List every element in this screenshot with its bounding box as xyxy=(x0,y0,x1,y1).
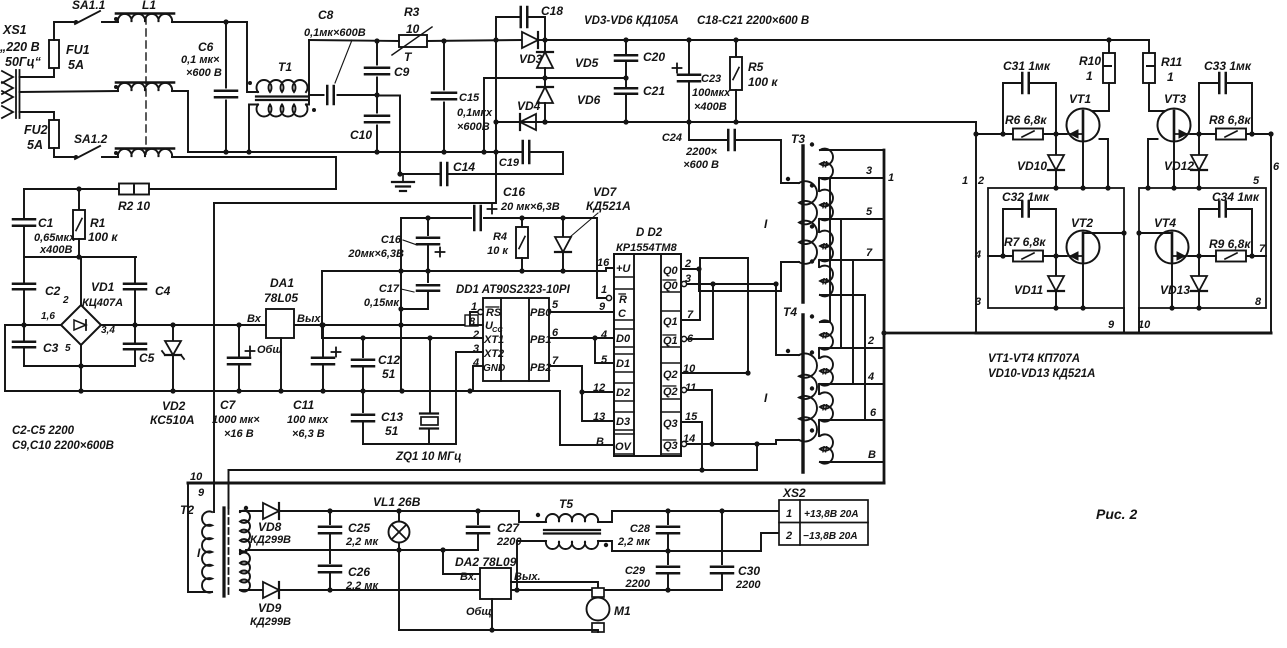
svg-text:9: 9 xyxy=(198,487,205,499)
svg-text:Рис. 2: Рис. 2 xyxy=(1096,506,1137,522)
lamp VL1 xyxy=(398,511,400,522)
wire xyxy=(1198,292,1200,308)
transistor VT2 xyxy=(1067,231,1100,264)
wire xyxy=(80,345,82,391)
svg-text:8: 8 xyxy=(1255,296,1262,308)
wire (PB1 to D0/D1) xyxy=(549,337,614,339)
capacitor C16 (shunt) xyxy=(427,218,429,235)
wire xyxy=(544,68,546,78)
wire xyxy=(78,189,80,210)
wire xyxy=(238,325,240,358)
wire xyxy=(448,173,564,175)
resistor R9 xyxy=(1216,251,1246,262)
svg-text:PB0: PB0 xyxy=(530,307,552,319)
wire xyxy=(496,121,520,123)
svg-text:C12: C12 xyxy=(378,353,400,367)
wire (return) xyxy=(597,630,599,632)
svg-text:0,1 мк×: 0,1 мк× xyxy=(181,54,220,66)
wire (shield tap) xyxy=(228,470,230,508)
svg-text:51: 51 xyxy=(382,367,396,381)
svg-text:16: 16 xyxy=(597,257,610,269)
svg-text:10: 10 xyxy=(190,471,203,483)
wire xyxy=(188,151,496,153)
wire xyxy=(598,541,612,551)
svg-text:10 к: 10 к xyxy=(487,245,509,257)
svg-text:PB1: PB1 xyxy=(530,334,551,346)
wire (PB2 to D2/D3) xyxy=(549,366,614,421)
wire (bridge left column) xyxy=(214,40,496,203)
wire xyxy=(102,21,118,23)
wire (net 9, heavy) xyxy=(188,482,884,485)
svg-text:FU1: FU1 xyxy=(66,43,90,57)
svg-text:0,1мкх: 0,1мкх xyxy=(457,107,493,119)
wire xyxy=(562,218,564,237)
wire xyxy=(1149,83,1174,111)
inner frame (VT2 cell) xyxy=(988,188,1124,308)
svg-text:C21: C21 xyxy=(643,84,665,98)
svg-text:Общ: Общ xyxy=(466,606,492,618)
svg-text:R6 6,8к: R6 6,8к xyxy=(1005,113,1047,127)
capacitor C5 xyxy=(134,325,136,343)
inverted output marker xyxy=(681,387,686,392)
svg-text:R3: R3 xyxy=(404,5,420,19)
svg-text:0,15мк: 0,15мк xyxy=(364,297,401,309)
svg-text:VL1 26В: VL1 26В xyxy=(373,495,421,509)
svg-text:C3: C3 xyxy=(43,341,59,355)
svg-text:SA1.2: SA1.2 xyxy=(74,132,108,146)
wire xyxy=(338,94,378,96)
svg-text:2: 2 xyxy=(867,335,874,347)
svg-text:5: 5 xyxy=(552,299,559,311)
svg-text:78L05: 78L05 xyxy=(264,291,298,305)
capacitor C29 xyxy=(667,551,669,564)
svg-text:С23: С23 xyxy=(701,73,721,85)
svg-text:C14: C14 xyxy=(453,160,475,174)
svg-text:C5: C5 xyxy=(139,351,155,365)
svg-text:C16: C16 xyxy=(503,185,525,199)
wire xyxy=(712,284,714,339)
svg-text:9: 9 xyxy=(1108,319,1115,331)
wire xyxy=(322,365,324,392)
wire xyxy=(24,324,61,326)
svg-text:2200×: 2200× xyxy=(685,146,717,158)
wire xyxy=(306,40,309,105)
capacitor C8 xyxy=(326,86,329,104)
wire (XT1 pin) xyxy=(322,337,483,339)
svg-text:КД299В: КД299В xyxy=(250,534,291,546)
svg-text:XS2: XS2 xyxy=(782,486,806,500)
svg-text:2200: 2200 xyxy=(625,578,651,590)
wire xyxy=(536,121,545,123)
wire (Q2) xyxy=(681,372,748,374)
wire xyxy=(530,152,564,174)
svg-text:C15: C15 xyxy=(459,92,480,104)
svg-text:SA1.1: SA1.1 xyxy=(72,0,106,12)
bus (transformer secondary common) xyxy=(883,150,886,481)
svg-text:2: 2 xyxy=(472,329,479,341)
wire (tap 3) xyxy=(820,177,884,179)
svg-text:R10: R10 xyxy=(1079,54,1101,68)
svg-text:С32 1мк: С32 1мк xyxy=(1002,190,1050,204)
svg-text:CC: CC xyxy=(492,325,503,334)
svg-text:C8: C8 xyxy=(318,8,334,22)
block frame (outer right) xyxy=(1270,134,1272,333)
svg-text:2: 2 xyxy=(977,175,984,187)
svg-text:9: 9 xyxy=(599,301,606,313)
wire xyxy=(363,352,456,444)
capacitor C28 xyxy=(667,511,669,524)
wire xyxy=(443,103,445,153)
wire xyxy=(688,40,690,75)
wire xyxy=(1123,308,1125,333)
svg-text:3: 3 xyxy=(473,343,479,355)
transformer T3 secondary II winding xyxy=(820,190,833,221)
wire (Q2bar) xyxy=(687,390,712,444)
wire xyxy=(756,444,758,470)
rail (+13.8 output) xyxy=(612,510,779,512)
transformer T3 secondary II winding xyxy=(820,231,833,262)
svg-text:Вх.: Вх. xyxy=(460,571,477,583)
wire (bridge AC return) xyxy=(24,365,81,367)
wire xyxy=(188,483,212,592)
svg-text:С31 1мк: С31 1мк xyxy=(1003,59,1051,73)
wire (Q0bar) xyxy=(687,283,776,285)
wire (winding link) xyxy=(818,219,820,232)
wire (net 10) xyxy=(229,469,758,471)
fuse FU1 xyxy=(49,40,59,68)
svg-text:VT2: VT2 xyxy=(1071,216,1093,230)
svg-text:D0: D0 xyxy=(616,333,631,345)
svg-text:C2: C2 xyxy=(45,284,61,298)
svg-text:5: 5 xyxy=(65,343,71,354)
wire (bus to VT block) xyxy=(884,332,976,335)
svg-text:С7: С7 xyxy=(220,398,237,412)
svg-text:6: 6 xyxy=(870,407,877,419)
wire (gate rail VT4) xyxy=(1189,255,1266,257)
inner frame (VT4 cell) xyxy=(1139,188,1266,308)
wire (PB0 to DD2 C) xyxy=(549,311,614,313)
switch SA1.1 xyxy=(75,11,100,24)
svg-text:13: 13 xyxy=(593,411,605,423)
wire xyxy=(1100,139,1109,188)
wire (tap B) xyxy=(820,461,884,463)
svg-text:OV: OV xyxy=(615,441,633,453)
wire xyxy=(376,41,378,65)
svg-text:С34 1мк: С34 1мк xyxy=(1212,190,1260,204)
motor M1 xyxy=(592,588,604,597)
svg-text:II: II xyxy=(822,277,828,288)
svg-text:51: 51 xyxy=(385,424,399,438)
transformer T2 secondary xyxy=(240,511,250,552)
svg-text:XT2: XT2 xyxy=(483,348,504,360)
svg-text:VT1-VT4 КП707А: VT1-VT4 КП707А xyxy=(988,353,1080,365)
svg-text:0,65мкх: 0,65мкх xyxy=(34,232,76,244)
svg-text:C6: C6 xyxy=(198,40,214,54)
svg-text:С2-С5 2200: С2-С5 2200 xyxy=(12,425,75,437)
rail (-26V) xyxy=(279,589,722,591)
wire xyxy=(172,357,174,391)
svg-text:Общ: Общ xyxy=(257,344,283,356)
wire (VT3 source) xyxy=(1173,139,1175,188)
svg-text:C26: C26 xyxy=(348,565,370,579)
svg-text:C17: C17 xyxy=(379,283,400,295)
svg-text:C9: C9 xyxy=(394,65,410,79)
IC DD2 КР1554ТМ8 xyxy=(614,254,681,456)
svg-text:R7 6,8к: R7 6,8к xyxy=(1004,235,1046,249)
svg-text:В: В xyxy=(596,436,604,448)
capacitor C26 xyxy=(329,550,331,563)
svg-text:VT3: VT3 xyxy=(1164,92,1186,106)
diode VD9 xyxy=(263,582,279,598)
svg-text:VD13: VD13 xyxy=(1160,283,1190,297)
svg-text:×400В: ×400В xyxy=(694,101,727,113)
svg-text:−13,8В 20А: −13,8В 20А xyxy=(803,531,858,542)
wire (gate rail VT1) xyxy=(976,133,1066,135)
wire xyxy=(24,256,136,258)
wire xyxy=(544,103,546,122)
wire xyxy=(225,22,227,88)
wire (tap 2) xyxy=(820,347,884,349)
capacitor C4 xyxy=(134,257,136,283)
svg-text:DA1: DA1 xyxy=(270,276,294,290)
transformer T4 secondary II winding xyxy=(820,392,833,421)
wire (Q3bar) xyxy=(687,443,776,445)
svg-text:C16: C16 xyxy=(381,234,402,246)
wire xyxy=(544,40,546,52)
transformer T4 core xyxy=(801,315,804,472)
wire xyxy=(1055,171,1057,188)
svg-text:VD1: VD1 xyxy=(91,280,115,294)
wire (center tap) xyxy=(240,550,330,552)
wire (cross vertical) xyxy=(820,295,865,420)
wire xyxy=(400,173,441,175)
wire xyxy=(1083,83,1109,111)
svg-text:2200: 2200 xyxy=(735,579,761,591)
wire xyxy=(562,253,564,271)
svg-text:C20: C20 xyxy=(643,50,665,64)
wire xyxy=(1148,139,1158,188)
wire (tap 4) xyxy=(820,383,884,385)
block frame (bottom) xyxy=(976,332,1271,335)
wire xyxy=(376,78,378,96)
voltage regulator DA1 78L05 xyxy=(266,309,294,338)
wire xyxy=(1138,308,1140,333)
wire (VT1 source) xyxy=(1082,139,1084,188)
wire xyxy=(400,309,402,391)
svg-text:C18: C18 xyxy=(541,4,563,18)
svg-text:Q3: Q3 xyxy=(663,418,678,430)
wire xyxy=(238,365,240,392)
bus (+ rectified) xyxy=(545,39,1149,41)
wire xyxy=(309,94,324,96)
svg-text:х400В: х400В xyxy=(39,244,72,256)
wire xyxy=(376,126,378,153)
wire (Q0) xyxy=(681,269,699,291)
svg-text:XT1: XT1 xyxy=(483,334,504,346)
svg-text:100 к: 100 к xyxy=(748,75,778,89)
svg-text:R5: R5 xyxy=(748,60,764,74)
capacitor C25 xyxy=(329,511,331,524)
svg-text:5: 5 xyxy=(1253,175,1260,187)
transformer T4 secondary II winding xyxy=(820,356,833,385)
svg-text:C13: C13 xyxy=(381,410,403,424)
wire (+5V to DD2) xyxy=(322,268,614,271)
wire (DA1 output riser) xyxy=(321,271,323,338)
wire xyxy=(377,96,400,175)
svg-text:GND: GND xyxy=(483,363,505,374)
svg-text:C10: C10 xyxy=(350,128,372,142)
capacitor C34 xyxy=(1199,209,1219,256)
svg-text:R: R xyxy=(619,294,627,306)
svg-text:С9,С10 2200×600В: С9,С10 2200×600В xyxy=(12,440,114,452)
wire xyxy=(54,148,75,157)
svg-text:КЦ407А: КЦ407А xyxy=(82,297,123,309)
svg-text:20 мк×6,3В: 20 мк×6,3В xyxy=(500,201,560,213)
svg-text:2,2 мк: 2,2 мк xyxy=(345,580,379,592)
svg-text:II: II xyxy=(822,201,828,212)
rail (-13.8 output) xyxy=(612,550,761,552)
svg-text:D1: D1 xyxy=(616,358,630,370)
svg-text:11: 11 xyxy=(685,382,696,394)
capacitor C6 xyxy=(215,90,237,93)
wire xyxy=(735,40,737,57)
wire (tap 5) xyxy=(820,218,884,220)
wire xyxy=(625,40,627,55)
svg-text:VD5: VD5 xyxy=(575,56,599,70)
wire (cross vertical) xyxy=(840,219,842,348)
svg-text:ZQ1 10 МГц: ZQ1 10 МГц xyxy=(395,451,462,463)
block frame (outer left) xyxy=(975,122,977,333)
svg-text:D3: D3 xyxy=(616,416,630,428)
wire xyxy=(172,157,336,189)
svg-text:R9 6,8к: R9 6,8к xyxy=(1209,237,1251,251)
svg-text:R4: R4 xyxy=(493,231,507,243)
svg-text:С28: С28 xyxy=(630,523,651,535)
capacitor C2 xyxy=(23,259,25,283)
wire (Q0 to T3 primary) xyxy=(699,262,781,291)
wire (RS pin) xyxy=(470,312,477,325)
capacitor C13 xyxy=(362,391,364,412)
wire xyxy=(101,324,135,326)
connector XS2 xyxy=(779,500,868,545)
wire xyxy=(780,262,782,291)
transformer T2 core xyxy=(222,508,225,596)
capacitor C24 xyxy=(689,122,728,140)
svg-text:C1: C1 xyxy=(38,216,54,230)
rail (0V mid) xyxy=(330,549,478,551)
wire (winding link) xyxy=(239,550,241,554)
wire (ground to OV) xyxy=(560,391,614,445)
capacitor C30 xyxy=(721,511,723,564)
wire xyxy=(102,156,118,158)
svg-text:С27: С27 xyxy=(497,521,520,535)
svg-text:Вых: Вых xyxy=(297,313,321,325)
wire xyxy=(521,258,523,271)
resistor R6 xyxy=(1013,129,1043,140)
wire (VT4 source) xyxy=(1171,261,1173,308)
svg-text:1: 1 xyxy=(601,284,607,296)
transistor VT3 xyxy=(1158,109,1191,142)
wire xyxy=(484,217,597,219)
svg-text:КР1554ТМ8: КР1554ТМ8 xyxy=(616,242,678,254)
svg-text:VT1: VT1 xyxy=(1069,92,1091,106)
svg-text:С11: С11 xyxy=(293,398,314,412)
capacitor C17 xyxy=(427,271,429,282)
svg-text:VD8: VD8 xyxy=(258,520,282,534)
rail (+26V) xyxy=(279,510,519,512)
svg-text:II: II xyxy=(822,242,828,253)
svg-text:С30: С30 xyxy=(738,564,760,578)
svg-text:VD11: VD11 xyxy=(1014,283,1043,297)
ground xyxy=(402,174,404,182)
svg-text:5: 5 xyxy=(601,354,608,366)
svg-text:II: II xyxy=(822,367,828,378)
wire xyxy=(1055,256,1057,276)
svg-text:КД299В: КД299В xyxy=(250,616,291,628)
wire (from HV rail to T2) xyxy=(213,203,215,512)
svg-text:100мкх: 100мкх xyxy=(692,87,731,99)
wire xyxy=(54,22,75,40)
transformer T3 core xyxy=(801,146,804,302)
wire xyxy=(521,218,523,227)
transistor VT1 xyxy=(1067,109,1100,142)
svg-text:4: 4 xyxy=(600,329,607,341)
wire (Q1) xyxy=(681,258,748,373)
svg-text:R11: R11 xyxy=(1161,55,1182,69)
wire (winding link) xyxy=(818,260,820,267)
inverted input marker xyxy=(606,295,611,300)
wire (DA2 output to M1) xyxy=(511,582,598,589)
svg-text:В: В xyxy=(868,449,876,461)
svg-text:2,2 мк: 2,2 мк xyxy=(617,536,651,548)
wire (bridge AC return) xyxy=(81,365,135,367)
wire (Q1bar) xyxy=(687,338,713,340)
svg-text:С18-С21 2200×600 В: С18-С21 2200×600 В xyxy=(697,15,809,27)
svg-text:×6,3 В: ×6,3 В xyxy=(292,428,325,440)
wire (winding link) xyxy=(818,348,820,358)
wire (tap 7) xyxy=(820,259,884,261)
svg-text:×600 В: ×600 В xyxy=(683,159,719,171)
inverted output marker xyxy=(681,336,686,341)
wire (to DD2 R) xyxy=(597,218,606,298)
transformer T4 primary I xyxy=(799,353,817,441)
svg-text:1: 1 xyxy=(786,508,792,520)
svg-text:100 мкх: 100 мкх xyxy=(287,414,329,426)
wire (Ucc pin) xyxy=(470,324,483,326)
transformer T3 secondary II winding xyxy=(820,149,833,180)
svg-text:20мк×6,3В: 20мк×6,3В xyxy=(347,248,404,260)
switch SA1.2 xyxy=(75,146,100,159)
svg-text:C19: C19 xyxy=(499,157,520,169)
svg-text:DA2 78L09: DA2 78L09 xyxy=(455,555,517,569)
wire xyxy=(538,39,545,41)
transformer T4 secondary II winding xyxy=(820,434,833,463)
svg-text:КД521А: КД521А xyxy=(586,199,631,213)
rail (ground) xyxy=(5,390,560,392)
wire (+5V upper) xyxy=(401,218,471,325)
transistor VT4 xyxy=(1156,231,1189,264)
bridge rectifier VD1 xyxy=(61,305,101,345)
svg-text:5А: 5А xyxy=(27,138,43,152)
svg-text:1: 1 xyxy=(962,175,968,187)
wire xyxy=(776,284,799,355)
svg-text:5А: 5А xyxy=(68,58,84,72)
wire (left edge) xyxy=(4,325,6,391)
svg-text:3,4: 3,4 xyxy=(101,325,115,336)
svg-text:12: 12 xyxy=(593,382,605,394)
wire xyxy=(20,68,55,77)
svg-text:VD10: VD10 xyxy=(1017,159,1047,173)
